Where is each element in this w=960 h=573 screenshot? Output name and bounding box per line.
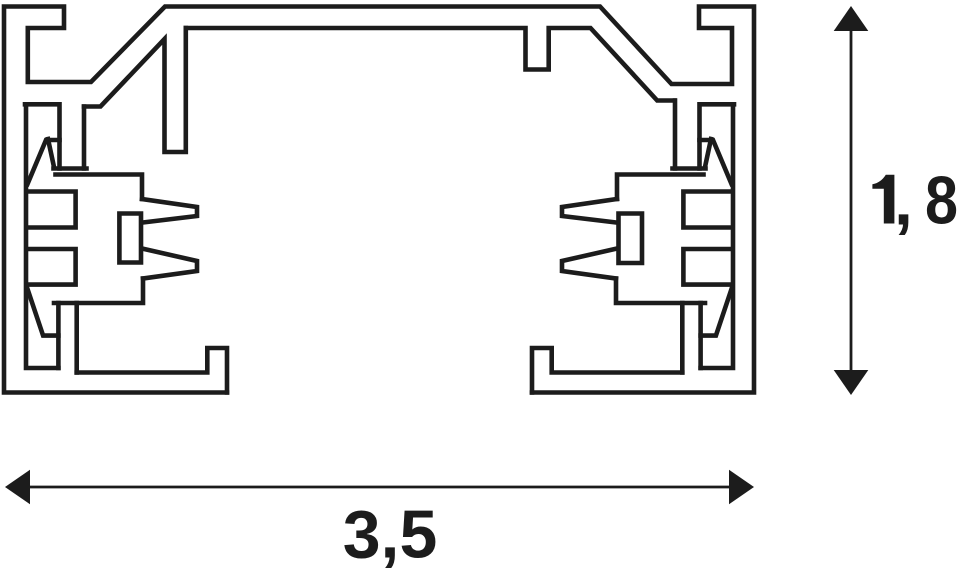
left contact tooth upper [142,199,197,223]
profile outer contour (left wall, top flange, hat, hook, right wall, bottom) [4,7,754,393]
left tongue lower right edge [54,279,143,304]
svg-text:3,5: 3,5 [343,497,438,573]
right tongue base [617,175,704,200]
left conductor groove lower [27,249,76,285]
left lower pocket wedge [28,289,59,336]
right insulator vertical (to hat slope) [673,101,678,169]
right insulator bottom cap [673,166,706,171]
left pocket wedge [28,140,60,184]
right lower pocket wedge [701,289,732,336]
left conductor groove upper [27,192,76,228]
left bottom tab [56,303,61,368]
svg-text:8: 8 [925,163,958,239]
top arrowhead [834,6,869,31]
right conductor groove lower [683,249,732,285]
left floor (inner bottom) [77,348,227,393]
right floor (inner bottom) [532,348,682,393]
horizontal dimension line 3,5 [28,486,731,489]
right pocket wedge inner slant [705,139,711,167]
right conductor window [619,214,643,264]
hat rib (T-rib left of center) [84,28,186,152]
hat inner surface with hanging tab (top band) [186,28,675,101]
right pocket wedge [700,140,732,184]
left tongue base [56,175,143,200]
right insulator pocket top [700,104,735,168]
right contact tooth lower [562,249,617,279]
left insulator vertical (to hat slope) [82,107,87,169]
label 1,8 : digit 1 drawn as polygon (no foot serif) [872,175,894,224]
right tongue lower left edge [616,279,705,304]
vertical dimension line 1,8 [850,29,853,372]
right contact tooth upper [562,199,617,223]
right arrowhead [729,470,754,505]
left insulator pocket top [25,104,60,168]
svg-text:,: , [894,163,913,239]
right wall inner surface [701,104,733,368]
right bottom tab [698,303,703,368]
left arrowhead [5,470,30,505]
left conductor window [119,214,141,263]
left contact tooth lower [142,249,197,279]
left pocket wedge inner slant [48,139,54,167]
bottom arrowhead [834,370,869,395]
right conductor groove upper [683,192,732,228]
left insulator bottom cap [54,166,87,171]
left wall inner surface [26,104,58,368]
